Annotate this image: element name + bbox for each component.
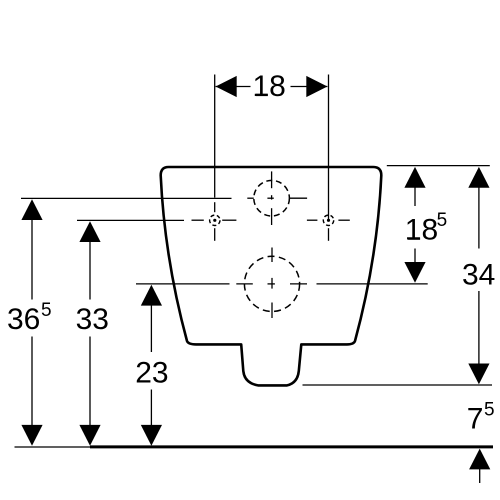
svg-text:33: 33	[76, 303, 109, 336]
svg-text:5: 5	[41, 300, 52, 321]
svg-text:23: 23	[135, 356, 168, 389]
svg-text:5: 5	[437, 210, 448, 231]
svg-text:34: 34	[462, 258, 495, 291]
svg-text:36: 36	[7, 303, 40, 336]
svg-text:18: 18	[405, 214, 438, 247]
svg-text:5: 5	[484, 400, 495, 421]
svg-text:7: 7	[467, 403, 484, 436]
svg-text:18: 18	[253, 70, 286, 103]
